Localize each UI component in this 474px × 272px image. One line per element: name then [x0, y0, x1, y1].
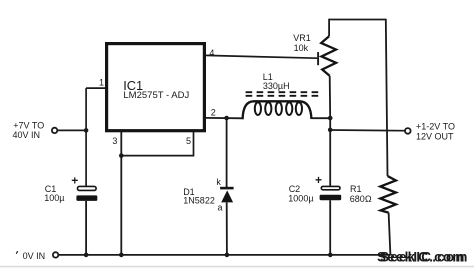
label VR1 10k [293, 33, 311, 53]
capacitor C1 100u [76, 186, 97, 255]
input terminal circle [52, 128, 57, 133]
inductor L1 330uH [243, 101, 312, 119]
node: rail junction D1 [225, 253, 230, 258]
0V terminal circle [53, 252, 58, 257]
label D1 1N5822 [183, 187, 215, 206]
wiper bar of VR1 [317, 52, 319, 65]
svg-text:1N5822: 1N5822 [183, 195, 215, 205]
wire: pin5 L-shape to pin3 [121, 132, 193, 156]
resistor R1 column with zigzag [380, 19, 396, 255]
wire: inductor to output column [311, 117, 330, 119]
core dashes of L1 [246, 92, 319, 96]
ground rail 0V [59, 254, 391, 256]
node: rail junction pin3 [119, 253, 124, 258]
output terminal circle [405, 128, 411, 134]
svg-text:k: k [216, 177, 221, 187]
node: junction pin3/pin5 [119, 153, 124, 158]
label C1 100u [44, 184, 64, 203]
svg-text:+: + [315, 173, 322, 187]
wire: output horizontal to terminal [330, 129, 405, 132]
svg-text:2: 2 [211, 108, 216, 118]
svg-text:680Ω: 680Ω [350, 194, 372, 204]
op-amp-style block IC1 LM2575T-ADJ [107, 44, 205, 131]
wire: riser x=86 from pin1 level down to C1 top plate [85, 88, 87, 186]
tick mark [16, 251, 17, 254]
node: junction input/C1 [84, 128, 89, 133]
svg-text:VR1: VR1 [293, 33, 311, 43]
svg-text:+: + [71, 174, 78, 188]
wire: top wire VR1 to R1 column [329, 19, 386, 21]
label C2 1000u [288, 184, 313, 203]
svg-text:100µ: 100µ [44, 193, 64, 203]
potentiometer VR1 10k [321, 19, 336, 118]
svg-text:LM2575T - ADJ: LM2575T - ADJ [123, 90, 189, 101]
svg-text:a: a [218, 203, 223, 213]
wire: pin4 feedback to VR1 wiper [206, 55, 318, 58]
label +1-2V TO 12V OUT [416, 122, 455, 142]
svg-text:40V IN: 40V IN [13, 130, 41, 140]
wire: output column down to C2 [329, 118, 331, 186]
diode D1 1N5822 [220, 118, 234, 255]
svg-text:0V IN: 0V IN [23, 251, 46, 261]
svg-text:SeekIC.com: SeekIC.com [377, 249, 466, 264]
label L1 330uH [263, 72, 290, 91]
node: junction L1 / VR1 / C2 column [328, 116, 333, 121]
svg-text:3: 3 [112, 136, 117, 146]
label +7V TO 40V IN [13, 121, 45, 140]
wire: pin1 horizontal into IC [86, 87, 106, 89]
svg-text:R1: R1 [350, 184, 362, 194]
wire: pin3 down to ground rail [120, 132, 122, 255]
wire: input terminal to C1/pin1 riser [57, 129, 86, 131]
svg-text:12V OUT: 12V OUT [416, 132, 454, 142]
node: junction output wire [328, 128, 333, 133]
svg-text:5: 5 [186, 136, 191, 146]
svg-text:1: 1 [99, 77, 104, 87]
svg-text:330µH: 330µH [263, 81, 290, 91]
node: junction pin2 / D1 [224, 116, 229, 121]
node: rail junction C2 [328, 253, 333, 258]
svg-text:+1-2V TO: +1-2V TO [416, 122, 455, 132]
capacitor C2 1000u [320, 186, 342, 255]
svg-text:1000µ: 1000µ [288, 193, 313, 203]
wire: pin2 out of IC to inductor [206, 117, 244, 119]
svg-text:4: 4 [209, 48, 214, 58]
svg-text:10k: 10k [294, 43, 309, 53]
node: rail junction C1 [84, 253, 89, 258]
watermark SeekIC.com [377, 249, 469, 264]
scan streak bottom [0, 266, 474, 268]
label R1 680ohm [350, 184, 372, 204]
